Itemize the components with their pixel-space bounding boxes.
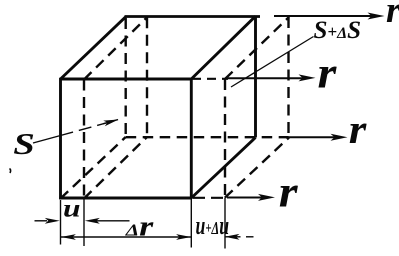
u+du dimension right arrowhead [225,234,240,240]
S pointer line dashed part [61,123,107,136]
svg-text:S+ΔS: S+ΔS [314,17,362,44]
section S+dS displaced: back vertical dashed [287,17,289,137]
box front face: bottom edge [59,196,191,199]
ink fleck [10,169,11,174]
axis r1 shaft (top) [274,15,372,17]
extension line below front-left corner [60,200,62,245]
box bottom left oblique edge (hidden, dashed) [61,137,126,199]
section S+dS displaced: front vertical dashed [224,79,226,198]
u dimension left arrowhead [45,218,60,224]
label u [63,195,81,222]
svg-text:r: r [279,168,299,217]
svg-text:r: r [318,49,338,98]
svg-text:r: r [386,0,399,31]
svg-text:r: r [349,108,368,153]
u dimension right arrow shaft [96,220,130,222]
label dr [125,211,155,243]
label S [13,127,35,161]
box front face: left edge [59,78,62,200]
axis r4 dashed part [193,197,227,199]
label r3 [349,108,368,153]
axis r4 arrowhead [258,194,275,201]
dr dimension line [61,236,191,238]
extension line below front-right corner [190,198,192,248]
S pointer final segment [103,120,118,124]
extension line below section S [83,199,85,247]
S pointer arrowhead [103,117,119,127]
box back right vertical edge [254,16,257,137]
label u+du [196,211,230,240]
svg-text:u: u [63,195,81,222]
label r2 [318,49,338,98]
box front face: right edge [190,78,193,198]
axis r2 dashed part [192,78,228,80]
section S displaced: bottom oblique dashed [84,137,147,199]
box front face: top edge [61,78,192,81]
section S displaced: front vertical dashed [83,80,85,199]
section S+dS displaced: top oblique dashed [225,17,289,79]
label r4 [279,168,299,217]
axis r3 arrowhead [331,134,348,141]
axis r1 arrowhead [368,13,385,20]
box oblique edge front-top-left to back-top-left [61,17,126,79]
box back left vertical edge (hidden, dashed) [124,18,126,137]
dr dimension left arrowhead [61,234,76,240]
box bottom right oblique edge [191,138,255,199]
box oblique edge front-top-right to back-top-right [191,16,255,79]
u+du dimension right arrow shaft [225,236,241,238]
box top back edge [125,15,261,18]
axis r4 shaft [227,197,262,199]
section S displaced: top oblique dashed [84,17,147,79]
svg-text:S: S [13,127,35,161]
u+du dimension right dash [246,236,254,238]
dr / u+du shared right arrowhead [176,234,191,240]
S pointer line solid part [33,136,61,144]
svg-text:u+Δu: u+Δu [196,211,230,240]
axis r2 arrowhead [299,74,316,81]
extension line below section S+dS [224,198,226,249]
svg-text:Δr: Δr [125,211,155,243]
section S+dS displaced: bottom oblique dashed [225,138,289,198]
u dimension right arrowhead [85,218,100,224]
section S displaced: back vertical dashed [146,17,148,137]
axis r3 shaft [289,136,336,138]
box back bottom edge (hidden, dashed) [126,136,289,138]
axis r2 shaft [228,77,303,79]
S+dS pointer line [231,37,314,88]
u dimension left arrow shaft [35,220,48,222]
